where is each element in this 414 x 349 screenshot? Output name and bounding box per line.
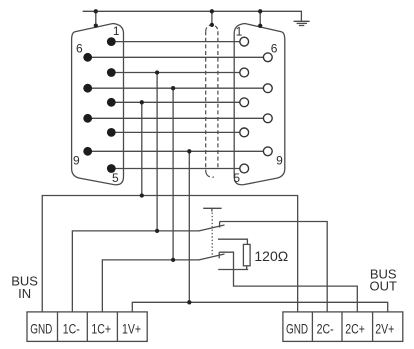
pin 9 left: [83, 147, 92, 156]
wire drop to left connector shell: [95, 11, 97, 25]
resistor R1 120ohm body: [243, 244, 250, 265]
terminal block X3 BUS IN: [27, 312, 147, 342]
svg-text:9: 9: [276, 153, 283, 167]
pin 3 right: [240, 98, 249, 107]
wire C- tap vertical: [156, 73, 158, 231]
wire C+ tap vertical: [172, 88, 174, 260]
svg-text:1: 1: [236, 24, 243, 38]
pin 6 right: [263, 53, 272, 62]
svg-text:5: 5: [233, 171, 240, 185]
svg-text:1: 1: [113, 24, 120, 38]
switch gang dotted link: [211, 213, 213, 258]
terminal block X4 BUS OUT: [283, 312, 403, 342]
connector X1 left DB9 shell: [72, 24, 124, 185]
connector X2 right DB9 shell: [234, 24, 285, 185]
pin 1 right: [240, 37, 249, 46]
wire pin5 to pin5: [111, 168, 244, 170]
pin 9 right: [263, 147, 272, 156]
switch S1a blade: [199, 225, 225, 231]
svg-text:2V+: 2V+: [375, 321, 394, 337]
svg-text:GND: GND: [286, 321, 308, 337]
pin 5 right: [240, 164, 249, 173]
svg-text:2C+: 2C+: [345, 321, 365, 337]
wire GND tap vertical: [141, 102, 143, 195]
ground: [294, 21, 310, 25]
wire pin3 to pin3 (GND): [111, 101, 244, 103]
terminal labels BUS OUT: [286, 321, 394, 337]
wire C+ to terminal 1C+: [102, 260, 199, 312]
switch actuator T bar: [203, 208, 221, 211]
svg-text:6: 6: [271, 42, 278, 56]
wire pin2 to pin2 (CAN low): [111, 72, 244, 74]
svg-text:6: 6: [76, 42, 83, 56]
pin 6 left: [83, 53, 92, 62]
svg-text:1V+: 1V+: [122, 321, 141, 337]
junction dots taps: [140, 70, 192, 304]
wire C- to terminal 1C-: [72, 231, 199, 312]
svg-text:120Ω: 120Ω: [254, 248, 288, 264]
svg-text:2C-: 2C-: [317, 321, 334, 337]
junction dots top bus: [94, 9, 263, 28]
cable shield dashed capsule: [206, 25, 218, 177]
wire drop to right connector shell: [259, 11, 261, 25]
pin 5 left: [107, 164, 116, 173]
wire pin6 to pin6: [88, 56, 268, 58]
svg-text:GND: GND: [30, 321, 52, 337]
wire resistor top open contact: [218, 239, 248, 244]
pin 8 left: [83, 114, 92, 123]
wire pin8 to pin8: [88, 117, 268, 119]
pin number labels left connector: [73, 24, 120, 185]
wire resistor bottom open contact: [218, 266, 248, 270]
pin 4 right: [240, 128, 249, 137]
wire V+ tap vertical: [188, 151, 190, 302]
wire shield top bus to earth: [83, 11, 302, 21]
pin 4 left: [107, 128, 116, 137]
wire pin4 to pin4: [111, 131, 244, 133]
wire GND net horizontal: [42, 196, 297, 312]
label BUS IN: [11, 274, 38, 301]
pin 8 right: [263, 114, 272, 123]
pin 3 left: [107, 98, 116, 107]
svg-text:1C-: 1C-: [63, 321, 80, 337]
wire to terminal 2C+: [219, 252, 357, 312]
wire drop to cable shield: [211, 11, 213, 25]
switch S1b contact: [218, 252, 220, 258]
terminal labels BUS IN: [30, 321, 141, 337]
svg-text:9: 9: [73, 153, 80, 167]
pin 2 left: [107, 68, 116, 77]
wire pin1 to pin1: [111, 41, 244, 43]
pin 2 right: [240, 68, 249, 77]
svg-text:OUT: OUT: [369, 278, 397, 293]
wire V+ net to terminals 1V+ 2V+: [132, 302, 387, 312]
switch S1a contact: [219, 222, 221, 228]
svg-text:1C+: 1C+: [91, 321, 111, 337]
svg-text:IN: IN: [18, 286, 31, 301]
pin 1 left: [107, 37, 116, 46]
svg-text:5: 5: [112, 171, 119, 185]
wire to terminal 2C-: [220, 222, 328, 312]
pin 7 right: [263, 84, 272, 93]
wire pin7 to pin7 (CAN high): [88, 87, 268, 89]
pin 7 left: [83, 84, 92, 93]
pin number labels right connector: [233, 24, 283, 185]
wire pin9 to pin9 (V+): [88, 150, 268, 152]
switch S1b blade: [199, 254, 225, 260]
label BUS OUT: [369, 267, 397, 294]
